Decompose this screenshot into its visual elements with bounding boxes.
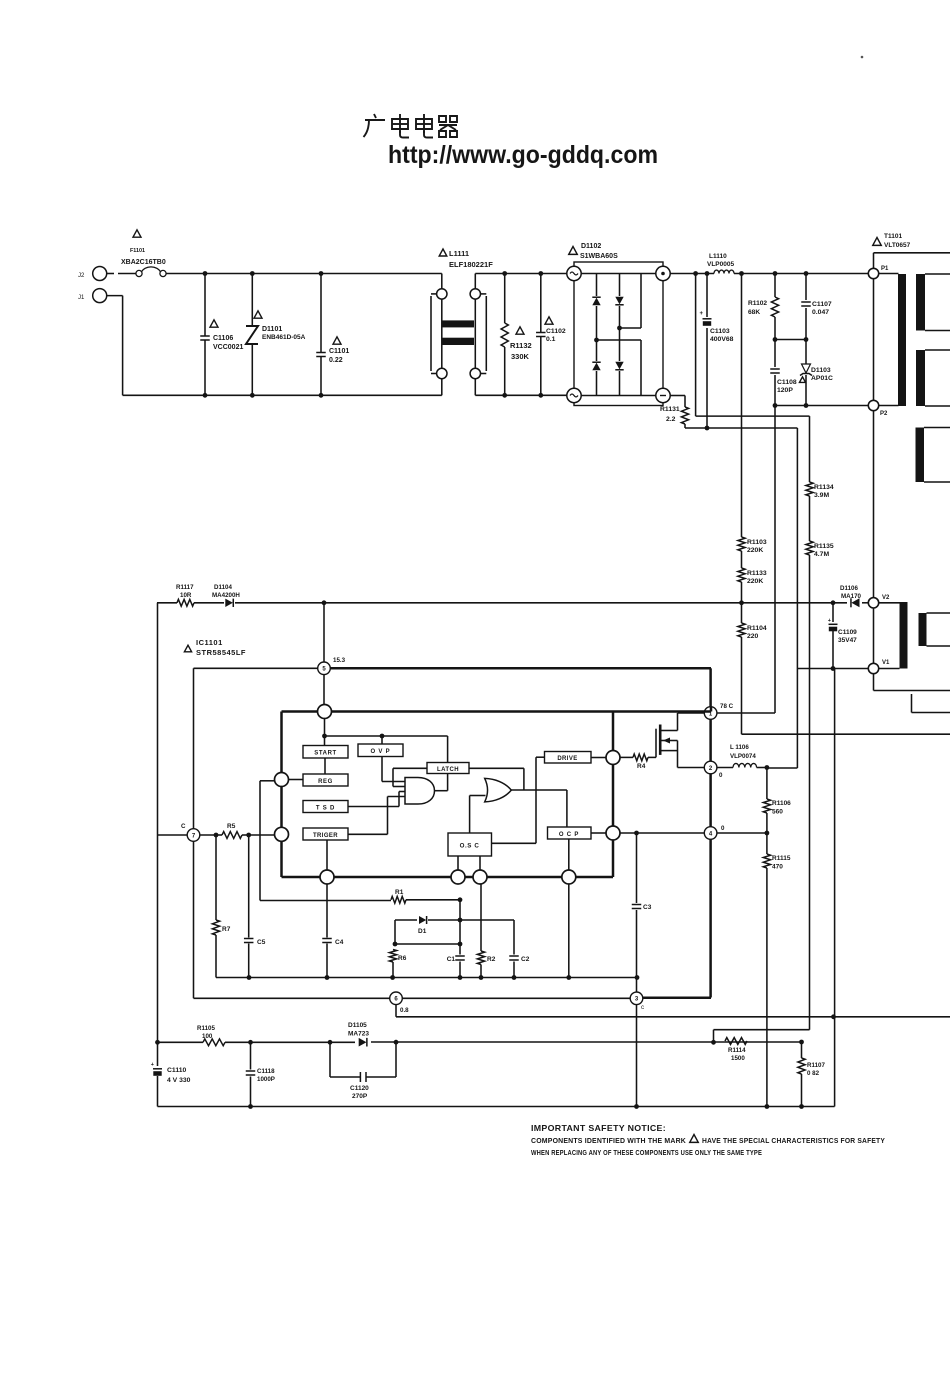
svg-text:R1106: R1106 — [772, 800, 791, 807]
resistor R1115 470 — [763, 854, 770, 868]
resistor R1102 68K — [774, 274, 776, 298]
resistor R1106 560 — [766, 768, 768, 800]
surge absorber D1101 ENB461D-05A — [251, 274, 253, 327]
svg-text:IC1101: IC1101 — [196, 638, 223, 647]
svg-text:R2: R2 — [487, 956, 496, 963]
capacitor C3 — [636, 833, 638, 903]
svg-text:C1120: C1120 — [350, 1085, 369, 1092]
pad bottom OSC1 — [451, 870, 465, 884]
wire hot ground to L1106 — [767, 767, 798, 769]
block OSC — [448, 833, 492, 856]
winding 6 stub — [911, 694, 913, 713]
svg-text:15.3: 15.3 — [333, 657, 346, 664]
resistor R1114 1500 — [725, 1038, 747, 1045]
wire hot ground vertical — [796, 428, 798, 768]
wire T1101 top stub — [873, 253, 875, 268]
wire OSC to OR — [469, 796, 471, 834]
svg-text:C1118: C1118 — [257, 1068, 275, 1075]
pin 4 — [704, 827, 717, 840]
svg-text:WHEN REPLACING ANY OF THESE CO: WHEN REPLACING ANY OF THESE COMPONENTS U… — [531, 1148, 762, 1157]
wire left sense drop (x=695.6) — [695, 274, 697, 417]
wire P2 to V2 — [873, 411, 875, 598]
resistor R2 — [480, 884, 482, 951]
svg-text:c: c — [641, 1004, 644, 1011]
capacitor C4 — [326, 884, 328, 938]
header Chinese logo 广电电器 — [364, 114, 458, 138]
wire top distribution — [325, 735, 448, 737]
block TSD — [303, 801, 348, 813]
transformer T1101 VLT0657 — [873, 238, 882, 246]
svg-text:+: + — [151, 1062, 154, 1068]
svg-text:S1WBA60S: S1WBA60S — [580, 253, 618, 260]
svg-text:0: 0 — [721, 825, 725, 832]
wire TRIGER col to pad — [326, 840, 328, 870]
wire startup chain to bottom — [714, 1029, 810, 1031]
svg-text:P1: P1 — [881, 266, 889, 272]
svg-text:TRIGER: TRIGER — [313, 833, 338, 839]
svg-text:400V68: 400V68 — [710, 336, 734, 343]
wire choke to bridge top — [475, 273, 566, 275]
svg-text:1500: 1500 — [731, 1055, 745, 1062]
svg-text:COMPONENTS IDENTIFIED WITH THE: COMPONENTS IDENTIFIED WITH THE MARK — [531, 1136, 687, 1145]
svg-text:START: START — [314, 751, 337, 757]
block OCP — [548, 827, 592, 839]
wire D1 lower link — [395, 943, 460, 945]
terminal V2 — [868, 598, 878, 608]
resistor R1105 100 — [203, 1039, 225, 1046]
svg-text:D1105: D1105 — [348, 1022, 367, 1029]
svg-text:3.9M: 3.9M — [814, 492, 829, 499]
wire OCP to pad — [568, 839, 570, 870]
svg-text:1000P: 1000P — [257, 1076, 275, 1083]
wire pin4 line — [620, 832, 704, 834]
capacitor C1118 1000P — [250, 1042, 252, 1069]
capacitor C2 — [513, 920, 515, 955]
pad OCP out — [606, 826, 620, 840]
pin 2 — [704, 761, 717, 774]
svg-text:D1: D1 — [418, 928, 427, 935]
svg-text:0.047: 0.047 — [812, 309, 829, 316]
pin 5 — [318, 662, 331, 675]
block START — [303, 746, 348, 759]
svg-text:+: + — [699, 311, 703, 317]
svg-text:http://www.go-gddq.com: http://www.go-gddq.com — [388, 141, 658, 169]
resistor R4 — [633, 754, 648, 761]
wire OSC to DRIVE — [492, 842, 537, 844]
svg-text:220K: 220K — [747, 578, 763, 585]
inductor L1106 VLP0074 — [717, 767, 733, 769]
transistor Q1 (MOSFET in IC) — [655, 729, 657, 758]
svg-text:REG: REG — [318, 779, 333, 785]
op-amp U1: IC1101 STR58545LF outer box — [184, 645, 191, 652]
resistor R1104 220 — [738, 623, 745, 637]
svg-text:VLP0074: VLP0074 — [730, 753, 756, 760]
svg-text:470: 470 — [772, 864, 783, 871]
svg-text:F1101: F1101 — [130, 248, 145, 254]
svg-text:0.8: 0.8 — [400, 1007, 409, 1014]
inductor L1111 ELF180221F (common-mode choke) — [439, 249, 447, 256]
svg-text:L 1106: L 1106 — [730, 744, 749, 751]
svg-text:R1103: R1103 — [747, 539, 767, 546]
wire pad to R4 — [620, 756, 633, 758]
pad top — [318, 705, 332, 719]
wire V1 return to edge — [873, 674, 875, 691]
wire pin6 sense line — [395, 1005, 397, 1017]
svg-text:R1131: R1131 — [660, 406, 680, 413]
pin 7 — [187, 829, 200, 842]
block DRIVE — [545, 752, 592, 764]
wire R1131 to hot-ground — [685, 427, 797, 429]
svg-text:R7: R7 — [222, 926, 231, 933]
svg-text:T1101: T1101 — [884, 233, 902, 240]
svg-text:VLT0657: VLT0657 — [884, 242, 911, 249]
svg-text:D1102: D1102 — [581, 243, 601, 250]
pad REG — [275, 773, 289, 787]
svg-text:VLP0005: VLP0005 — [707, 261, 734, 268]
svg-text:R1133: R1133 — [747, 570, 767, 577]
block OVP — [358, 744, 403, 757]
wire choke to bridge bottom — [475, 394, 566, 396]
IC inner substrate box — [282, 710, 318, 713]
wire pin5 riser — [323, 603, 325, 662]
pad bottom C4 — [320, 870, 334, 884]
wire feedback rail R1105 line — [158, 1041, 204, 1043]
secondary winding bar 1 — [916, 274, 925, 331]
wire LATCH feedback to AND — [393, 767, 427, 769]
svg-text:R1104: R1104 — [747, 625, 767, 632]
svg-text:C1: C1 — [447, 956, 456, 963]
svg-text:O C P: O C P — [559, 832, 579, 838]
svg-text:VCC0021: VCC0021 — [213, 344, 243, 351]
wire TSD to AND — [348, 806, 399, 808]
pin 6 — [390, 992, 403, 1005]
svg-text:R4: R4 — [637, 763, 646, 770]
svg-text:C1108: C1108 — [777, 379, 797, 386]
svg-text:P2: P2 — [880, 411, 888, 417]
svg-text:R1105: R1105 — [197, 1025, 215, 1032]
wire OCP out to pad — [591, 832, 606, 834]
wire R1102/C1107 junction — [775, 339, 806, 341]
svg-text:LATCH: LATCH — [437, 767, 459, 773]
svg-text:R1: R1 — [395, 889, 404, 896]
svg-text:ELF180221F: ELF180221F — [449, 260, 493, 269]
wire OSC to bottom pads — [457, 856, 459, 870]
wire top AC rail — [166, 273, 442, 275]
resistor R6 — [389, 950, 396, 963]
primary winding bar — [898, 274, 906, 406]
IC internal ground rail — [216, 977, 637, 979]
resistor R1103 220K — [738, 537, 745, 551]
capacitor C1109 35V47 (electrolytic) — [832, 603, 834, 622]
svg-text:100: 100 — [202, 1033, 213, 1040]
terminal P2 — [868, 400, 878, 410]
svg-text:R1114: R1114 — [728, 1047, 746, 1054]
capacitor C1110 4V330 (electrolytic) — [153, 1068, 162, 1070]
wire startup chain vertical (x=809.5) — [809, 416, 811, 482]
capacitor C1103 400V68 (electrolytic) — [706, 274, 708, 318]
svg-text:C3: C3 — [643, 904, 652, 911]
capacitor C1101 0.22 — [320, 274, 322, 353]
svg-text:C1102: C1102 — [546, 328, 566, 335]
svg-text:R1117: R1117 — [176, 584, 194, 591]
capacitor C1 — [459, 900, 461, 955]
wire pad OCP to rail — [568, 884, 570, 978]
svg-text:D1103: D1103 — [811, 367, 831, 374]
wire pin3 to ground rail — [636, 1005, 638, 1107]
svg-text:V1: V1 — [882, 660, 890, 666]
wire REG to pad — [289, 779, 303, 781]
svg-text:HAVE THE SPECIAL CHARACTERISTI: HAVE THE SPECIAL CHARACTERISTICS FOR SAF… — [702, 1136, 885, 1145]
svg-text:D1106: D1106 — [840, 585, 858, 592]
svg-text:IMPORTANT SAFETY NOTICE:: IMPORTANT SAFETY NOTICE: — [531, 1123, 666, 1133]
svg-text:0: 0 — [719, 772, 723, 779]
wire aux ground riser — [834, 669, 836, 1107]
svg-text:T S D: T S D — [316, 806, 335, 812]
pad bottom OCP — [562, 870, 576, 884]
terminal P1 — [868, 268, 878, 278]
wire C1108 node to pin1 (x=775) — [774, 406, 776, 714]
svg-text:R1132: R1132 — [510, 341, 532, 350]
aux winding bar — [900, 602, 908, 669]
fuse F1101 XBA2C16TB0 — [133, 230, 141, 237]
diode D1 — [395, 919, 417, 921]
junction node dots on + rail — [693, 271, 698, 276]
svg-text:270P: 270P — [352, 1093, 368, 1100]
bridge rectifier D1102 S1WBA60S — [569, 247, 578, 255]
wire TRIGER to AND — [348, 833, 388, 835]
svg-text:ENB461D-05A: ENB461D-05A — [262, 334, 306, 341]
pad TRIGER — [275, 827, 289, 841]
svg-text:J2: J2 — [78, 273, 85, 279]
svg-text:C: C — [181, 823, 186, 830]
pad bottom OSC2 — [473, 870, 487, 884]
svg-text:R5: R5 — [227, 823, 236, 830]
wire REG sense to R1 — [260, 780, 274, 782]
block REG — [303, 774, 348, 786]
resistor R1132 330K — [504, 274, 506, 324]
svg-text:220K: 220K — [747, 547, 763, 554]
terminal V1 — [868, 663, 878, 673]
svg-text:R1134: R1134 — [814, 484, 834, 491]
wire aux return — [797, 668, 869, 670]
wire + rail to transformer P1 — [670, 273, 714, 275]
svg-text:C2: C2 — [521, 956, 530, 963]
wire LATCH out — [469, 767, 524, 769]
wire bottom AC rail — [123, 394, 442, 396]
gate AND — [405, 778, 435, 805]
svg-text:560: 560 — [772, 809, 783, 816]
scan speck — [861, 56, 864, 59]
svg-text:D1101: D1101 — [262, 326, 282, 333]
svg-text:R1115: R1115 — [772, 855, 791, 862]
svg-text:MA723: MA723 — [348, 1031, 369, 1038]
secondary winding bar 5 — [919, 613, 927, 646]
svg-text:C1109: C1109 — [838, 629, 857, 636]
wire START to REG — [324, 758, 326, 774]
svg-text:R6: R6 — [398, 955, 407, 962]
svg-text:L1111: L1111 — [449, 249, 469, 258]
resistor R1135 4.7M — [806, 541, 813, 555]
wire J1 to bottom rail — [107, 295, 123, 297]
svg-text:R1107: R1107 — [807, 1062, 825, 1069]
svg-text:XBA2C16TB0: XBA2C16TB0 — [121, 259, 166, 266]
svg-text:C1103: C1103 — [710, 328, 730, 335]
resistor R1107 0.82 — [801, 1042, 803, 1058]
capacitor C1106 VCC0021 — [204, 274, 206, 336]
wire P2 rail — [775, 405, 869, 407]
capacitor C1102 0.1 — [540, 274, 542, 333]
secondary winding bar 3 — [916, 428, 925, 483]
resistor R1133 220K — [738, 568, 745, 582]
zener diode D1103 AP01C — [805, 340, 807, 365]
block LATCH — [427, 763, 469, 774]
svg-text:MA4200H: MA4200H — [212, 592, 240, 599]
pad DRIVE out — [606, 751, 620, 765]
svg-text:STR58545LF: STR58545LF — [196, 648, 246, 657]
svg-text:O.S C: O.S C — [460, 843, 480, 850]
svg-text:4.7M: 4.7M — [814, 551, 829, 558]
resistor R7 — [215, 835, 217, 920]
svg-text:C1110: C1110 — [167, 1067, 186, 1074]
svg-text:C1101: C1101 — [329, 348, 349, 355]
svg-text:220: 220 — [747, 633, 759, 640]
svg-text:C1107: C1107 — [812, 301, 832, 308]
wire drain sense vertical (x=742) — [741, 274, 743, 538]
wire AND out to LATCH — [435, 790, 448, 792]
wire OVP to AND — [381, 757, 383, 782]
wire OCP sense line — [742, 733, 950, 735]
svg-text:L1110: L1110 — [709, 253, 727, 260]
resistor R1134 3.9M — [806, 482, 813, 496]
inductor L1110 VLP0005 — [714, 270, 734, 273]
svg-text:AP01C: AP01C — [811, 375, 833, 382]
svg-text:4 V 330: 4 V 330 — [167, 1077, 191, 1084]
wire pin7 input line — [158, 834, 188, 836]
wire primary vertical P1-P2 — [873, 279, 875, 400]
block TRIGER — [303, 828, 348, 840]
svg-text:DRIVE: DRIVE — [557, 756, 577, 762]
wire left rail (x=157.5) — [157, 603, 159, 1066]
wire cold ground rail — [158, 1106, 835, 1108]
svg-text:0.1: 0.1 — [546, 336, 556, 343]
svg-text:10R: 10R — [180, 592, 192, 599]
wire Vcc line to aux winding — [324, 602, 847, 604]
svg-text:0 82: 0 82 — [807, 1070, 820, 1077]
svg-text:35V47: 35V47 — [838, 637, 857, 644]
svg-text:2.2: 2.2 — [666, 416, 676, 423]
svg-text:V2: V2 — [882, 595, 890, 601]
diode D1105 MA723 — [359, 1038, 367, 1047]
resistor R5 — [222, 832, 242, 839]
resistor R1131 2.2 — [670, 395, 685, 397]
svg-text:R1135: R1135 — [814, 543, 834, 550]
svg-text:O V P: O V P — [370, 749, 390, 755]
capacitor C5 — [248, 835, 250, 938]
svg-text:78 C: 78 C — [720, 703, 734, 710]
svg-text:330K: 330K — [511, 352, 530, 361]
wire OR out to OCP — [511, 789, 567, 791]
wire pad to START column — [324, 719, 326, 746]
capacitor C1107 0.047 — [805, 274, 807, 301]
pin 3 — [630, 992, 643, 1005]
wire DRIVE to pad — [591, 757, 606, 759]
resistor R1 — [260, 900, 391, 902]
capacitor C1108 120P — [774, 340, 776, 368]
capacitor C1120 270P — [329, 1042, 331, 1077]
svg-text:C4: C4 — [335, 939, 344, 946]
svg-text:D1104: D1104 — [214, 584, 232, 591]
gate OR — [485, 778, 512, 802]
svg-text:+: + — [828, 618, 831, 624]
pin 1 — [704, 707, 717, 720]
svg-text:C5: C5 — [257, 939, 266, 946]
svg-text:R1102: R1102 — [748, 300, 767, 307]
svg-text:J1: J1 — [78, 295, 85, 301]
svg-text:120P: 120P — [777, 387, 793, 394]
secondary winding bar 2 — [916, 350, 925, 406]
svg-text:C1106: C1106 — [213, 335, 233, 342]
svg-text:0.22: 0.22 — [329, 357, 343, 364]
svg-text:68K: 68K — [748, 309, 760, 316]
wire V2-V1 vertical — [873, 608, 875, 663]
